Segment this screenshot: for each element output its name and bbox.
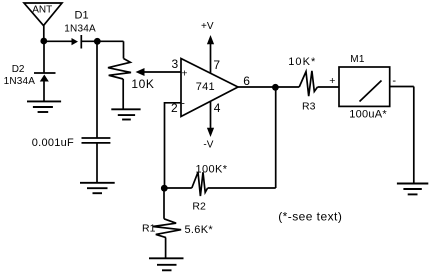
svg-text:741: 741 [196, 81, 215, 93]
svg-text:6: 6 [243, 74, 250, 88]
svg-text:1N34A: 1N34A [4, 76, 36, 87]
svg-text:ANT: ANT [32, 4, 52, 15]
svg-text:-: - [181, 98, 185, 110]
svg-text:D2: D2 [12, 64, 25, 75]
svg-text:5.6K*: 5.6K* [185, 224, 214, 236]
svg-text:R2: R2 [192, 201, 206, 213]
svg-text:7: 7 [213, 58, 220, 72]
svg-text:2: 2 [171, 101, 178, 115]
svg-text:100uA*: 100uA* [349, 109, 387, 121]
svg-text:1N34A: 1N34A [64, 24, 96, 35]
svg-text:10K*: 10K* [288, 56, 316, 68]
svg-text:0.001uF: 0.001uF [32, 137, 74, 149]
svg-text:+: + [329, 75, 335, 87]
svg-text:-V: -V [203, 140, 213, 151]
svg-text:D1: D1 [75, 10, 89, 22]
svg-text:+V: +V [201, 21, 214, 32]
svg-text:+: + [181, 68, 187, 80]
svg-text:(*-see text): (*-see text) [278, 209, 342, 223]
svg-text:-: - [392, 75, 396, 87]
svg-text:3: 3 [172, 57, 179, 71]
svg-text:M1: M1 [350, 54, 365, 65]
svg-text:R1: R1 [142, 223, 156, 235]
svg-text:100K*: 100K* [196, 164, 228, 176]
svg-text:10K: 10K [131, 77, 154, 91]
svg-text:R3: R3 [302, 101, 316, 113]
svg-text:4: 4 [214, 101, 221, 115]
